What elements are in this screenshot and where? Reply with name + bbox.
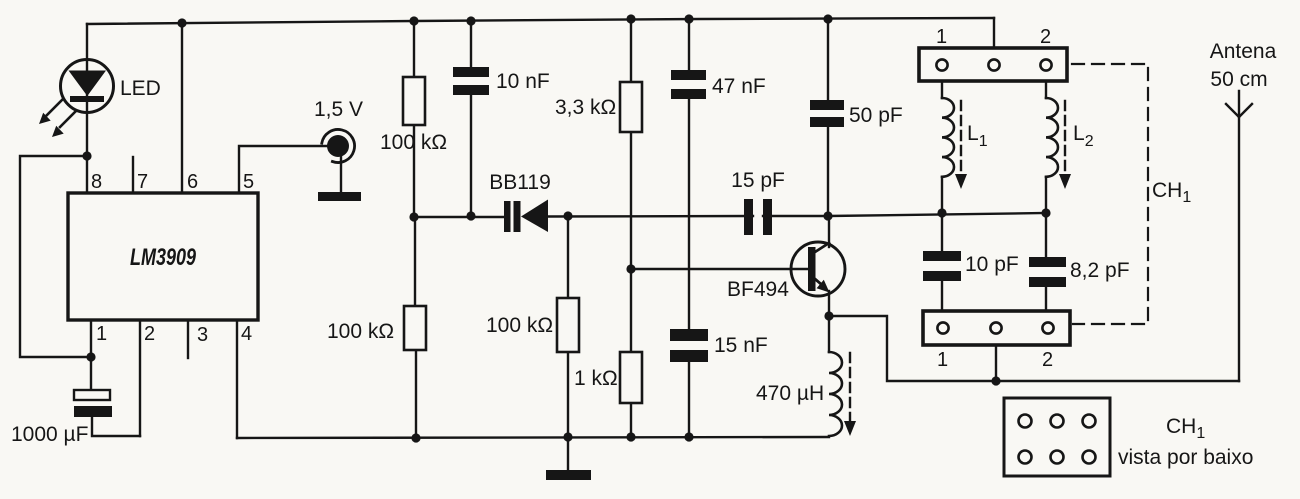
wire 50pF top	[827, 19, 829, 100]
svg-text:1 kΩ: 1 kΩ	[574, 367, 618, 390]
svg-text:1000 µF: 1000 µF	[11, 423, 88, 446]
wire 47nF top	[688, 19, 690, 70]
wire 10pF bottom	[941, 281, 943, 311]
svg-text:15 pF: 15 pF	[731, 169, 785, 192]
node top rail 10nF	[466, 16, 475, 25]
wire bottom rail	[237, 437, 829, 438]
svg-text:50 pF: 50 pF	[849, 104, 903, 127]
wire 3.3k to 1k	[630, 132, 632, 352]
wire L2 top	[1045, 81, 1047, 98]
wire left loop pin8 to pin1	[20, 156, 91, 357]
wire R1 bottom	[413, 125, 415, 217]
wire 1k bottom	[630, 403, 632, 437]
wire 47nF to 15nF	[688, 99, 690, 329]
wire 10nF top	[470, 21, 472, 67]
wire ground stem	[567, 437, 569, 470]
svg-text:6: 6	[187, 171, 198, 193]
svg-text:2: 2	[144, 323, 155, 345]
wire pin 3 stub	[187, 320, 189, 358]
svg-text:50 cm: 50 cm	[1210, 68, 1267, 91]
resistor R5 1k	[620, 352, 642, 403]
dashed outline CH1	[1072, 64, 1148, 324]
inductor L1	[942, 98, 954, 177]
node top rail 47nF	[684, 14, 693, 23]
wire mid rail right segment	[763, 213, 1046, 216]
svg-text:15 nF: 15 nF	[714, 334, 768, 357]
svg-text:470 µH: 470 µH	[756, 382, 824, 405]
wire 10pF top	[941, 213, 943, 251]
node pin1 junction	[86, 352, 95, 361]
capacitor C3 47nF	[671, 70, 706, 99]
wire battery ground stem	[340, 157, 342, 192]
inductor L2	[1046, 98, 1058, 177]
node antenna rail CH1 pin	[991, 376, 1000, 385]
battery connector 1.5V	[322, 129, 355, 162]
node LED cathode pin8	[82, 151, 91, 160]
node top rail R1	[409, 16, 418, 25]
resistor R4 3.3k	[620, 82, 642, 132]
wire mid rail diode to 15pF segment	[548, 215, 753, 218]
svg-text:100 kΩ: 100 kΩ	[380, 131, 447, 154]
svg-text:100 kΩ: 100 kΩ	[327, 320, 394, 343]
svg-text:1,5 V: 1,5 V	[314, 98, 363, 121]
svg-text:47 nF: 47 nF	[712, 75, 766, 98]
svg-text:2: 2	[1042, 349, 1053, 371]
svg-text:BB119: BB119	[489, 171, 551, 194]
node base junction 3.3k/1k	[626, 264, 635, 273]
svg-text:3: 3	[197, 324, 208, 346]
node top rail 50pF	[823, 14, 832, 23]
wire 50pF bottom	[827, 127, 829, 216]
svg-text:7: 7	[137, 171, 148, 193]
wire 15nF bottom	[688, 362, 690, 437]
wire 3.3k top	[630, 19, 632, 82]
wire 8.2pF bottom	[1045, 287, 1047, 311]
wire CH1 bottom middle pin stem	[995, 345, 997, 381]
node mid rail R1/R2	[409, 212, 418, 221]
wire collector	[828, 216, 830, 247]
svg-text:100 kΩ: 100 kΩ	[486, 314, 553, 337]
diode D2 BB119 varicap	[504, 200, 548, 233]
wire R2 bottom	[415, 350, 417, 438]
node mid rail collector 50pF	[823, 211, 832, 220]
capacitor C5 15pF series	[744, 199, 772, 235]
svg-text:10 pF: 10 pF	[965, 253, 1019, 276]
wire top supply rail	[87, 18, 994, 24]
wire pin 4	[236, 320, 238, 438]
capacitor C6 50pF	[810, 100, 844, 127]
connector CH1 bottom half	[923, 311, 1070, 345]
capacitor C7 10pF	[923, 251, 961, 281]
op-amp U1 LM3909 IC body	[68, 193, 258, 320]
capacitor C8 8.2pF	[1029, 257, 1066, 287]
capacitor C2 10nF	[453, 67, 489, 95]
svg-text:BF494: BF494	[727, 278, 789, 301]
svg-text:8: 8	[91, 171, 102, 193]
wire pin 1 to capacitor	[90, 320, 92, 390]
wire pin 5 to battery	[239, 146, 327, 193]
svg-text:CH1: CH1	[1152, 179, 1191, 206]
svg-text:3,3 kΩ: 3,3 kΩ	[555, 96, 616, 119]
wire L1 top	[941, 81, 943, 98]
wire pin 2	[139, 320, 141, 436]
svg-text:Antena: Antena	[1210, 40, 1277, 63]
node bottom rail 15nF	[684, 432, 693, 441]
wire 8.2pF top	[1045, 213, 1047, 257]
svg-text:L1: L1	[967, 122, 988, 150]
svg-text:8,2 pF: 8,2 pF	[1070, 259, 1130, 282]
connector CH1 bottom view	[1004, 398, 1110, 476]
wire mid rail left segment	[414, 216, 504, 218]
ground main	[546, 470, 591, 480]
svg-text:CH1: CH1	[1166, 415, 1205, 442]
wire antenna lead	[1238, 91, 1240, 381]
wire L2 bottom	[1045, 177, 1047, 213]
svg-text:5: 5	[243, 171, 254, 193]
wire 10nF bottom	[470, 95, 472, 216]
svg-text:L2: L2	[1073, 122, 1094, 150]
svg-text:LED: LED	[120, 77, 161, 100]
resistor R2 100k	[404, 306, 426, 350]
inductor 470uH	[829, 352, 842, 436]
node bottom rail R3 ground	[563, 432, 572, 441]
node bottom rail R2	[411, 433, 420, 442]
capacitor C4 15nF	[670, 329, 708, 362]
node L2 bottom	[1041, 208, 1050, 217]
adjustable arrow L2	[1059, 101, 1071, 189]
antenna	[1226, 104, 1252, 117]
transistor Q1 BF494	[791, 242, 845, 296]
adjustable arrow L1	[955, 101, 967, 189]
wire top rail drop to CH1 top middle pin	[993, 18, 995, 59]
wire pin 7 stub	[132, 157, 134, 193]
svg-text:2: 2	[1040, 26, 1051, 48]
wire 470uH top	[828, 316, 830, 352]
wire R2 top	[414, 217, 416, 306]
wire emitter	[828, 291, 830, 316]
wire L1 bottom	[941, 177, 943, 213]
LED D1	[39, 60, 114, 138]
svg-text:vista por baixo: vista por baixo	[1118, 446, 1253, 469]
wire R3 top	[567, 216, 569, 298]
resistor R3 100k	[557, 298, 579, 352]
wire capacitor bottom to pin 2	[92, 417, 140, 436]
node bottom rail 1k	[626, 432, 635, 441]
wire pin 6	[181, 23, 183, 193]
wire LED / pin 8 vertical	[86, 24, 88, 193]
node mid rail 10nF	[466, 211, 475, 220]
node top rail pin6	[177, 18, 186, 27]
wire R1 top	[413, 21, 415, 77]
node L1 bottom	[937, 208, 946, 217]
wire base of transistor	[632, 268, 807, 270]
node mid rail R3	[563, 211, 572, 220]
svg-text:1: 1	[96, 323, 107, 345]
svg-text:4: 4	[241, 323, 252, 345]
svg-text:LM3909: LM3909	[130, 244, 196, 271]
connector CH1 top half	[919, 48, 1067, 81]
node emitter junction	[824, 311, 833, 320]
wire emitter to antenna rail	[829, 316, 1239, 381]
svg-text:10 nF: 10 nF	[496, 70, 550, 93]
capacitor C1 1000uF electrolytic	[74, 390, 112, 417]
node top rail 3.3k	[626, 14, 635, 23]
svg-text:1: 1	[937, 349, 948, 371]
resistor R1 100k	[403, 77, 425, 125]
svg-text:1: 1	[936, 26, 947, 48]
wire R3 bottom	[567, 352, 569, 437]
ground battery	[318, 192, 361, 201]
adjustable arrow 470uH	[844, 353, 856, 436]
